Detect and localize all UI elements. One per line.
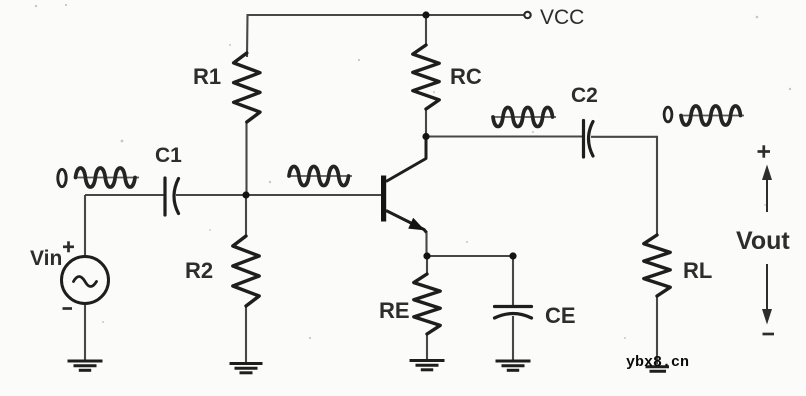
junction dot base node <box>242 191 249 198</box>
AC source Vin circle <box>62 257 109 304</box>
junction dot CE top node <box>509 252 516 259</box>
wire RL bottom to ground <box>656 295 658 364</box>
wire C2 right plate to RL top <box>591 137 657 236</box>
wire input corner down to Vin source <box>84 195 86 257</box>
collector waveform sine (inverted) <box>493 107 553 126</box>
svg-text:Vout: Vout <box>736 227 790 255</box>
wire top rail from R1 top to VCC terminal <box>247 15 524 57</box>
svg-text:RC: RC <box>450 64 482 89</box>
wire RE bottom to ground <box>426 333 428 359</box>
junction dot emitter node <box>423 252 430 259</box>
svg-text:ybx8.cn: ybx8.cn <box>626 354 689 371</box>
Vin minus sign <box>63 307 73 310</box>
resistor RL <box>644 235 670 296</box>
svg-text:C1: C1 <box>155 144 182 167</box>
output waveform axis line <box>680 115 744 117</box>
wire emitter node to CE top <box>427 255 513 257</box>
output waveform sine (inverted) <box>681 106 741 125</box>
output zero label <box>664 107 672 122</box>
wire emitter vertical down to emitter node <box>425 232 427 257</box>
Vout up arrow <box>766 179 768 212</box>
wire RC bottom to collector node <box>425 108 427 136</box>
ground under R2 <box>230 362 263 365</box>
wire base node to R2 top <box>245 195 247 236</box>
junction dot top rail / RC <box>422 11 429 18</box>
svg-text:VCC: VCC <box>540 6 584 29</box>
base waveform axis line <box>288 175 352 177</box>
Vout plus sign <box>758 150 771 153</box>
ground under Vin <box>68 360 103 363</box>
Vout minus sign <box>763 333 775 336</box>
svg-text:RE: RE <box>379 298 410 323</box>
svg-text:R1: R1 <box>193 64 221 89</box>
transistor Q1 emitter arrowhead <box>408 218 425 231</box>
scan noise specks (decorative) <box>35 4 791 339</box>
wire collector node to C2 left plate <box>426 135 582 137</box>
svg-text:RL: RL <box>683 258 712 283</box>
junction dot collector node <box>422 133 429 140</box>
input zero label <box>58 169 66 186</box>
transistor Q1 emitter line <box>386 211 427 233</box>
wire R1 bottom lead to base node <box>245 122 247 195</box>
ground under RL (partially hidden by watermark) <box>646 365 670 368</box>
input waveform axis line <box>75 177 140 179</box>
resistor RE <box>414 274 440 334</box>
wire R2 bottom to ground <box>245 306 247 362</box>
ground under CE <box>496 360 531 363</box>
collector waveform axis line <box>492 116 556 118</box>
capacitor CE plates <box>495 305 532 308</box>
resistor R1 <box>234 53 260 122</box>
svg-text:Vin: Vin <box>30 247 62 270</box>
capacitor C1 plates <box>163 178 166 215</box>
Vout down arrow <box>766 264 768 309</box>
transistor Q1 base bar <box>381 176 386 222</box>
wire CE top lead <box>512 256 514 305</box>
resistor R2 <box>233 236 259 306</box>
capacitor C2 plates <box>582 121 585 158</box>
Vin plus sign <box>63 245 74 248</box>
wire input source to C1 <box>85 194 164 196</box>
ground under RE <box>410 359 445 362</box>
wire RC top lead <box>425 15 427 46</box>
wire Vin source to ground <box>84 304 86 361</box>
transistor Q1 collector line <box>386 137 426 182</box>
svg-text:C2: C2 <box>571 84 598 107</box>
resistor RC <box>413 45 439 109</box>
AC source sine symbol <box>74 277 97 287</box>
wire RE top lead <box>426 256 428 275</box>
input waveform sine <box>76 168 136 187</box>
svg-text:R2: R2 <box>185 258 213 283</box>
wire CE bottom lead to ground <box>512 316 514 360</box>
VCC open terminal circle <box>524 12 530 18</box>
svg-text:CE: CE <box>545 303 576 328</box>
wire C1 to base node to transistor base <box>176 194 382 196</box>
base waveform sine <box>289 166 349 185</box>
